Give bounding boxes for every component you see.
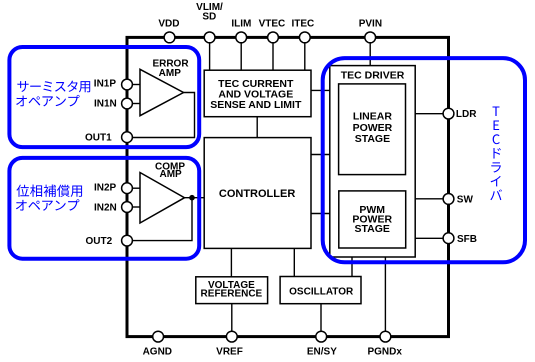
- wire controller to linear power stage: [311, 154, 339, 156]
- wire comp amp output to OUT2: [132, 198, 192, 241]
- wire comp amp output to controller: [185, 197, 205, 199]
- wire oscillator to EN/SY pin: [320, 304, 322, 332]
- wire voltage reference to VREF pin: [231, 304, 233, 332]
- svg-text:ITEC: ITEC: [292, 19, 315, 30]
- label TECドライバ (TEC driver, vertical): [490, 106, 502, 200]
- svg-text:SENSE AND LIMIT: SENSE AND LIMIT: [210, 99, 302, 111]
- pin OUT2: [122, 235, 133, 246]
- pin EN/SY: [316, 331, 327, 342]
- svg-text:TEC DRIVER: TEC DRIVER: [341, 69, 405, 81]
- pin ITEC: [299, 32, 310, 43]
- pin PVIN: [365, 32, 376, 43]
- svg-text:IN1P: IN1P: [94, 78, 117, 89]
- svg-text:AGND: AGND: [143, 347, 172, 358]
- svg-text:ILIM: ILIM: [231, 19, 251, 30]
- block: TEC driver (outer): [330, 66, 415, 257]
- wire controller to PWM power stage: [311, 213, 339, 215]
- pin SFB: [443, 233, 454, 244]
- blue frame: TEC driver group: [323, 58, 525, 262]
- svg-text:PVIN: PVIN: [359, 19, 382, 30]
- svg-text:OUT2: OUT2: [86, 236, 113, 247]
- svg-text:VDD: VDD: [158, 19, 179, 30]
- wire ILIM to sense block: [240, 43, 242, 70]
- op-amp: error amp: [140, 69, 184, 115]
- svg-text:EN/SY: EN/SY: [307, 346, 337, 357]
- pin IN1P: [122, 79, 133, 90]
- wire PWM power stage to oscillator: [351, 248, 353, 277]
- svg-text:AMP: AMP: [159, 169, 182, 180]
- svg-text:VREF: VREF: [216, 347, 243, 358]
- svg-text:SFB: SFB: [457, 234, 477, 245]
- pin VDD: [164, 32, 175, 43]
- pin VREF: [226, 331, 237, 342]
- pin SW: [443, 194, 454, 205]
- wire PVIN to TEC driver: [369, 43, 371, 66]
- wire controller to oscillator: [293, 248, 295, 276]
- svg-text:OUT1: OUT1: [85, 133, 112, 144]
- wire VLIM/SD to sense block: [209, 43, 211, 70]
- block: voltage reference: [196, 277, 268, 304]
- wire sense block to controller: [256, 117, 258, 138]
- wire linear power stage to LDR pin: [406, 113, 444, 115]
- blue frame: phase compensation op-amp group: [9, 158, 199, 259]
- svg-text:IN1N: IN1N: [94, 99, 117, 110]
- wire sense block to linear power stage: [311, 89, 338, 91]
- svg-text:AMP: AMP: [159, 68, 182, 79]
- wire IN2N to comp amp: [132, 206, 140, 208]
- wire controller to voltage reference: [230, 248, 232, 276]
- label サーミスタ用 (thermistor): [17, 81, 90, 93]
- wire ITEC to sense block: [304, 43, 306, 70]
- chip boundary: [127, 37, 449, 336]
- svg-text:OSCILLATOR: OSCILLATOR: [289, 286, 354, 297]
- wire IN1P to error amp: [132, 84, 140, 86]
- junction dot at comp amp output: [189, 195, 195, 201]
- svg-text:VTEC: VTEC: [259, 19, 286, 30]
- svg-text:LDR: LDR: [456, 109, 477, 120]
- wire error amp output to OUT1: [132, 93, 194, 138]
- block: PWM power stage: [339, 191, 406, 248]
- svg-text:IN2N: IN2N: [94, 202, 117, 213]
- block: linear power stage: [339, 84, 406, 175]
- svg-text:STAGE: STAGE: [354, 223, 389, 235]
- svg-text:LINEAR: LINEAR: [353, 110, 393, 122]
- svg-text:STAGE: STAGE: [355, 133, 390, 145]
- pin ILIM: [236, 32, 247, 43]
- pin LDR: [443, 108, 454, 119]
- wire IN2P to comp amp: [132, 187, 140, 189]
- pin AGND: [153, 331, 164, 342]
- pin VTEC: [268, 32, 279, 43]
- svg-text:SD: SD: [202, 12, 216, 23]
- label オペアンプ (op-amp) line 2: [16, 199, 79, 210]
- svg-text:CONTROLLER: CONTROLLER: [219, 188, 295, 200]
- block: TEC current and voltage sense and limit: [204, 70, 311, 117]
- svg-text:PGNDx: PGNDx: [367, 347, 402, 358]
- wire PWM power stage to SW pin: [406, 198, 444, 200]
- svg-text:SW: SW: [457, 195, 474, 206]
- pin PGNDx: [380, 331, 391, 342]
- wire TEC driver to SFB pin: [415, 237, 443, 239]
- pin IN2N: [122, 202, 133, 213]
- op-amp: comp amp: [140, 173, 185, 224]
- block: controller: [204, 138, 311, 249]
- label 位相補償用 (phase compensation): [16, 185, 82, 197]
- pin OUT1: [122, 132, 133, 143]
- blue frame: thermistor op-amp group: [9, 47, 199, 147]
- wire VTEC to sense block: [272, 43, 274, 70]
- label オペアンプ (op-amp) line 2: [16, 95, 79, 106]
- pin IN1N: [122, 98, 133, 109]
- wire PWM power stage to PGNDx pin: [384, 248, 386, 331]
- wire IN1N to error amp: [132, 103, 140, 105]
- svg-text:IN2P: IN2P: [94, 183, 117, 194]
- svg-text:REFERENCE: REFERENCE: [201, 289, 263, 300]
- pin VLIM/SD: [204, 32, 215, 43]
- pin IN2P: [122, 183, 133, 194]
- block: oscillator: [280, 277, 361, 304]
